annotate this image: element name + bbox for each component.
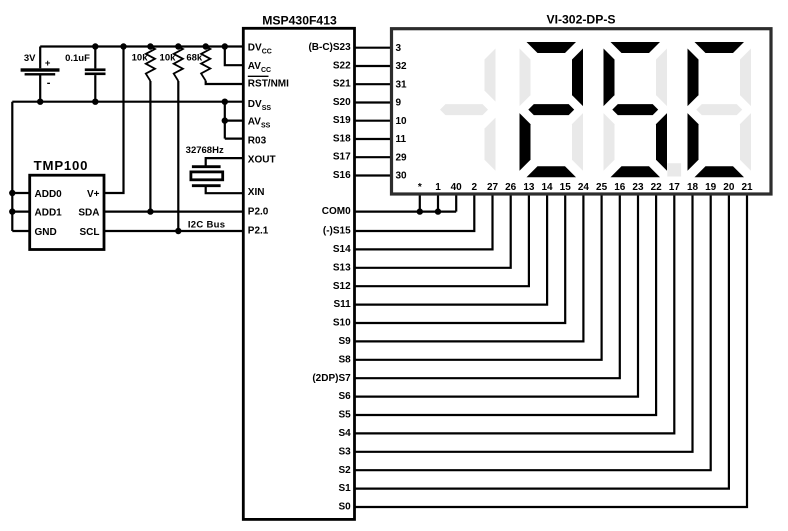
wire LCD pin 20 to S1 — [355, 194, 729, 489]
pin RST/NMI overbar — [248, 75, 269, 77]
svg-text:30: 30 — [396, 171, 408, 182]
svg-text:V+: V+ — [87, 189, 100, 200]
svg-text:24: 24 — [578, 182, 590, 193]
svg-text:23: 23 — [632, 182, 644, 193]
svg-text:RST/NMI: RST/NMI — [248, 79, 289, 90]
svg-text:P2.0: P2.0 — [248, 206, 269, 217]
battery 3V — [39, 47, 41, 69]
svg-text:27: 27 — [487, 182, 499, 193]
LCD digit C — [695, 42, 745, 53]
svg-text:S18: S18 — [333, 133, 351, 144]
svg-text:11: 11 — [396, 134, 407, 145]
svg-text:S17: S17 — [333, 152, 351, 163]
svg-text:S5: S5 — [338, 410, 351, 421]
junction COM0 pin1 — [435, 208, 441, 214]
wire to R03 — [225, 138, 244, 140]
svg-text:P2.1: P2.1 — [248, 225, 269, 236]
svg-text:10k: 10k — [160, 53, 177, 64]
wire LCD pin 40 drop — [455, 194, 457, 212]
svg-text:10: 10 — [396, 116, 408, 127]
svg-text:21: 21 — [741, 182, 753, 193]
wire to ADD1 — [12, 211, 29, 213]
svg-text:13: 13 — [523, 182, 535, 193]
svg-text:S14: S14 — [333, 244, 351, 255]
svg-text:2: 2 — [472, 182, 478, 193]
IC U1 MSP430F413 — [243, 28, 354, 519]
LCD digit 2 — [527, 42, 577, 53]
svg-text:19: 19 — [705, 182, 717, 193]
svg-text:18: 18 — [687, 182, 699, 193]
svg-text:S3: S3 — [338, 446, 351, 457]
svg-text:S21: S21 — [333, 79, 351, 90]
svg-text:S13: S13 — [333, 262, 351, 273]
wire LCD pin 26 to S13 — [355, 194, 511, 268]
wire LCD pin 16 to S7 — [355, 194, 620, 378]
wire R2 to SCL — [177, 81, 179, 231]
svg-text:R03: R03 — [248, 135, 267, 146]
wire LCD pin 2 to S15 — [355, 194, 475, 231]
svg-text:3V: 3V — [24, 53, 36, 64]
svg-text:20: 20 — [723, 182, 735, 193]
svg-text:I2C Bus: I2C Bus — [188, 219, 225, 230]
svg-text:(-)S15: (-)S15 — [323, 226, 351, 237]
junction AVss tap — [222, 117, 228, 123]
svg-text:COM0: COM0 — [322, 206, 351, 217]
crystal Y1 32768Hz — [206, 158, 244, 167]
svg-text:S19: S19 — [333, 115, 351, 126]
LCD module VI-302-DP-S — [392, 29, 772, 194]
LCD digit 5 — [611, 42, 661, 53]
svg-text:15: 15 — [560, 182, 572, 193]
wire LCD pin 21 to S0 — [355, 194, 748, 507]
svg-text:31: 31 — [396, 79, 408, 90]
junction SCL pullup — [175, 228, 181, 234]
wire to ADD0 — [12, 192, 29, 194]
svg-text:SDA: SDA — [78, 208, 99, 219]
resistor R2 10k — [174, 47, 183, 82]
svg-text:S6: S6 — [338, 391, 351, 402]
svg-text:16: 16 — [614, 182, 626, 193]
svg-text:TMP100: TMP100 — [34, 158, 89, 173]
wire TMP100 ground drop — [11, 102, 13, 231]
svg-text:S0: S0 — [338, 502, 351, 513]
wire S19 to LCD — [355, 120, 392, 122]
svg-text:0.1uF: 0.1uF — [65, 53, 90, 64]
svg-text:14: 14 — [541, 182, 553, 193]
junction AVcc tap — [222, 43, 228, 49]
svg-text:25: 25 — [596, 182, 608, 193]
junction R1 top — [147, 43, 153, 49]
svg-text:1: 1 — [435, 182, 441, 193]
svg-text:40: 40 — [451, 182, 463, 193]
svg-text:+: + — [45, 58, 51, 69]
wire S23 to LCD — [355, 47, 392, 49]
svg-text:ADD1: ADD1 — [35, 208, 63, 219]
svg-text:32768Hz: 32768Hz — [186, 145, 224, 156]
junction ADD0 — [9, 190, 15, 196]
LCD digit 1 segments (off) — [485, 49, 496, 102]
wire LCD pin 14 to S11 — [355, 194, 548, 305]
svg-text:VI-302-DP-S: VI-302-DP-S — [546, 13, 615, 27]
wire LCD pin * drop — [419, 194, 421, 212]
svg-text:22: 22 — [651, 182, 663, 193]
wire SDA — [104, 211, 243, 213]
wire R3 to RST/NMI — [206, 81, 244, 84]
wire LCD pin 23 to S6 — [355, 194, 639, 397]
IC U2 TMP100 — [30, 175, 104, 249]
wire S22 to LCD — [355, 65, 392, 67]
wire S20 to LCD — [355, 101, 392, 103]
wire to GND pin — [12, 230, 29, 232]
svg-text:SCL: SCL — [80, 227, 100, 238]
svg-text:ADD0: ADD0 — [35, 189, 63, 200]
wire SCL — [104, 230, 243, 232]
junction battery gnd — [37, 99, 43, 105]
svg-text:17: 17 — [669, 182, 681, 193]
svg-text:MSP430F413: MSP430F413 — [262, 13, 337, 27]
svg-text:S10: S10 — [333, 318, 351, 329]
svg-text:S9: S9 — [338, 336, 351, 347]
junction cap top — [92, 43, 98, 49]
wire LCD pin 25 to S8 — [355, 194, 602, 360]
junction R3 top — [203, 43, 209, 49]
wire V+ to rail — [104, 47, 124, 194]
svg-text:-: - — [47, 77, 51, 89]
svg-text:3: 3 — [396, 43, 402, 54]
svg-text:XOUT: XOUT — [248, 155, 276, 166]
LCD minus segment (off) — [440, 104, 488, 115]
junction V+ rail — [120, 43, 126, 49]
LCD decimal point (off) — [667, 163, 681, 176]
svg-text:XIN: XIN — [248, 187, 265, 198]
resistor R1 10k — [146, 47, 155, 82]
wire LCD pin 22 to S5 — [355, 194, 657, 415]
junction R2 top — [175, 43, 181, 49]
junction ADD1 — [9, 208, 15, 214]
junction cap gnd — [92, 99, 98, 105]
junction SDA pullup — [147, 208, 153, 214]
svg-text:10k: 10k — [132, 53, 149, 64]
wire AVcc tap — [225, 47, 244, 66]
svg-text:S8: S8 — [338, 354, 351, 365]
wire R1 to SDA — [149, 81, 151, 212]
junction COM0 pin* — [417, 208, 423, 214]
junction gnd tap — [222, 99, 228, 105]
capacitor C1 0.1uF — [94, 47, 96, 69]
svg-text:26: 26 — [505, 182, 517, 193]
wire LCD pin 17 to S4 — [355, 194, 675, 433]
wire LCD pin 13 to S12 — [355, 194, 529, 286]
svg-text:*: * — [418, 182, 422, 193]
wire S16 to LCD — [355, 174, 392, 176]
svg-text:68k: 68k — [186, 53, 203, 64]
svg-text:S11: S11 — [333, 299, 351, 310]
wire LCD pin 18 to S3 — [355, 194, 693, 452]
svg-text:S2: S2 — [338, 465, 351, 476]
svg-text:GND: GND — [35, 227, 57, 238]
wire LCD pin 1 drop — [437, 194, 439, 212]
wire LCD pin 15 to S10 — [355, 194, 566, 323]
resistor R3 68k — [201, 47, 210, 81]
svg-text:S4: S4 — [338, 428, 351, 439]
wire ground rail — [12, 101, 243, 103]
svg-text:S1: S1 — [338, 483, 351, 494]
svg-text:9: 9 — [396, 98, 402, 109]
wire LCD pin 27 to S14 — [355, 194, 493, 249]
svg-text:S20: S20 — [333, 97, 351, 108]
svg-text:(B-C)S23: (B-C)S23 — [308, 42, 351, 53]
wire S21 to LCD — [355, 83, 392, 85]
svg-text:S22: S22 — [333, 60, 351, 71]
wire Vcc top rail — [40, 45, 243, 47]
wire to AVss — [225, 119, 244, 121]
wire LCD pin 19 to S2 — [355, 194, 711, 470]
svg-text:S12: S12 — [333, 281, 351, 292]
wire ground tap vertical — [224, 102, 226, 139]
svg-text:S16: S16 — [333, 170, 351, 181]
svg-text:29: 29 — [396, 152, 408, 163]
wire COM0 — [355, 211, 457, 213]
svg-text:32: 32 — [396, 61, 408, 72]
wire S17 to LCD — [355, 156, 392, 158]
svg-text:(2DP)S7: (2DP)S7 — [312, 373, 351, 384]
wire S18 to LCD — [355, 138, 392, 140]
wire LCD pin 24 to S9 — [355, 194, 584, 341]
